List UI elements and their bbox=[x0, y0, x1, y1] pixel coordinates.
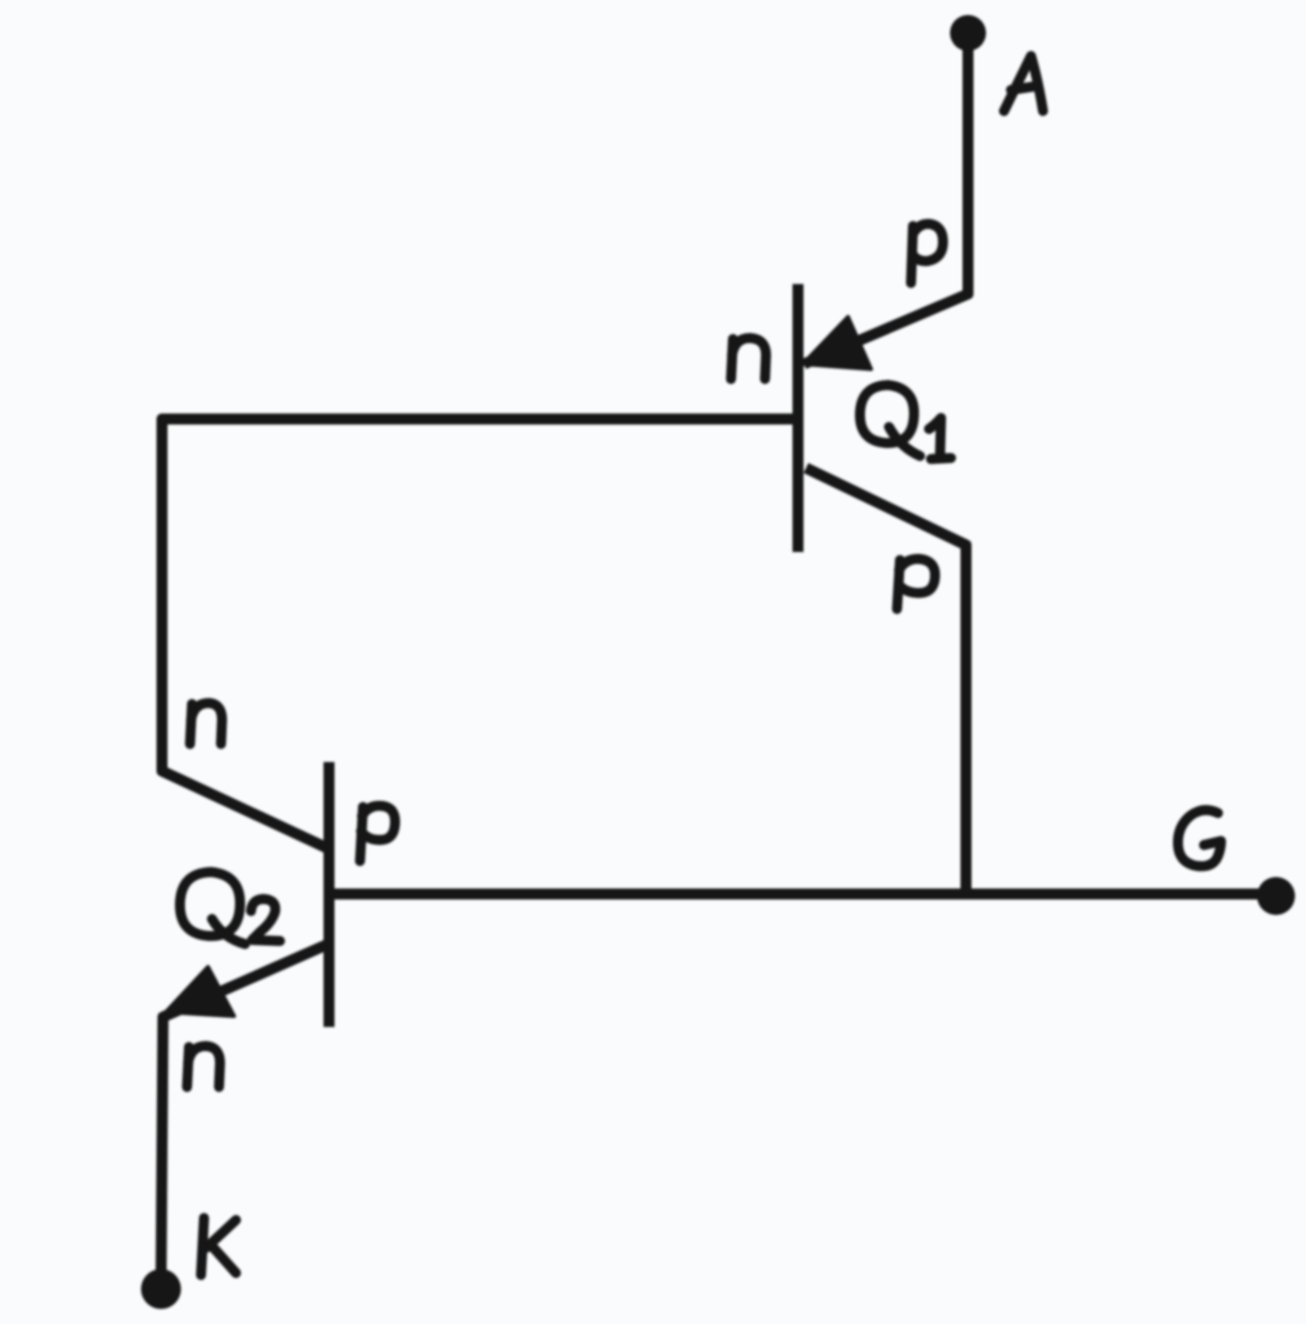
label n (left rail region) bbox=[190, 703, 222, 744]
transistor Q1 base bar bbox=[793, 284, 804, 552]
terminal G dot bbox=[1257, 877, 1295, 915]
label A (anode) bbox=[1004, 56, 1043, 111]
transistor Q2 base bar bbox=[324, 762, 335, 1027]
label p (Q1 emitter region) bbox=[911, 224, 943, 283]
terminal A dot bbox=[950, 15, 986, 51]
wire Q1 base to left rail bbox=[162, 419, 798, 848]
label Q2 bbox=[180, 872, 245, 944]
terminal K dot bbox=[141, 1269, 181, 1309]
wire anode A to Q1 emitter bbox=[804, 40, 968, 364]
label Q1 bbox=[860, 385, 920, 456]
label n (Q2 emitter region) bbox=[187, 1046, 220, 1087]
label n (Q1 base region) bbox=[731, 338, 766, 379]
wire gate rail to terminal G bbox=[334, 889, 1272, 900]
label K (cathode) bbox=[201, 1218, 236, 1275]
label G (gate) bbox=[1178, 810, 1221, 866]
transistor Q1 emitter arrowhead bbox=[803, 317, 871, 369]
label p (Q1 collector region) bbox=[897, 559, 935, 609]
label p (Q2 base region) bbox=[360, 806, 395, 861]
transistor Q2 emitter wire to cathode K bbox=[161, 945, 326, 1285]
transistor Q1 collector wire to gate rail bbox=[806, 468, 966, 894]
transistor Q2 emitter arrowhead bbox=[166, 967, 234, 1016]
